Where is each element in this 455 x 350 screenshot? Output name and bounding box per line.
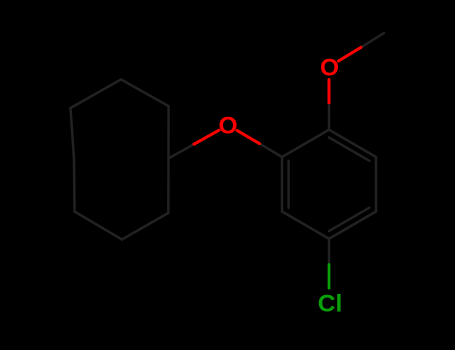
svg-text:O: O xyxy=(320,55,339,82)
svg-text:O: O xyxy=(218,112,237,139)
svg-text:Cl: Cl xyxy=(318,290,343,317)
